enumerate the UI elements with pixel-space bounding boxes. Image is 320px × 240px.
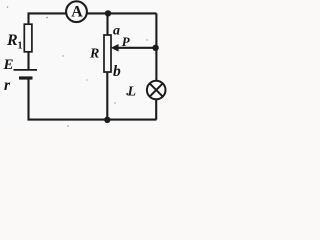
svg-text:E: E: [3, 57, 14, 73]
svg-text:1: 1: [18, 41, 23, 52]
slider arrow P of rheostat: [111, 44, 118, 51]
scan speckles (decorative): [7, 6, 148, 127]
wire: battery to bottom-left corner and bottom wire: [29, 80, 157, 120]
svg-text:a: a: [113, 23, 120, 38]
node: top junction dot: [105, 10, 111, 16]
svg-text:A: A: [71, 4, 83, 21]
svg-text:L: L: [127, 85, 137, 100]
wire: R1 to battery: [27, 52, 29, 69]
svg-text:R: R: [6, 32, 18, 49]
ammeter A1: [66, 1, 87, 22]
wire: middle branch bottom: [106, 72, 108, 120]
svg-text:r: r: [4, 77, 11, 94]
node: slider junction dot: [152, 45, 158, 51]
rheostat R: [104, 35, 111, 72]
node: bottom junction dot: [104, 117, 110, 123]
wire: middle branch top: [106, 13, 108, 35]
resistor R1: [24, 24, 32, 52]
wire: right side down to lamp: [155, 13, 157, 81]
wire: ammeter to top-right corner: [87, 12, 156, 14]
wire: top-left corner to ammeter: [29, 13, 67, 24]
svg-text:b: b: [113, 63, 121, 80]
lamp L: [147, 81, 166, 100]
wire: lamp to bottom-right corner: [155, 99, 157, 119]
svg-text:P: P: [122, 34, 131, 49]
battery E (short thick plate): [19, 76, 33, 79]
svg-text:R: R: [89, 47, 99, 62]
battery E (long plate): [14, 69, 38, 71]
